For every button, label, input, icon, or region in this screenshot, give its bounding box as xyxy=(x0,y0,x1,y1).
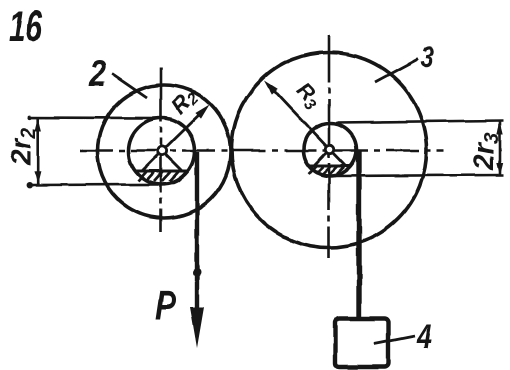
radius arrow R3 xyxy=(265,81,330,150)
wheel 3 vertical centerline xyxy=(328,35,331,258)
wheel 2 outer circle (gear 2, radius R2) xyxy=(98,85,231,218)
svg-text:2: 2 xyxy=(88,53,106,94)
dimension 2r3 (right side) xyxy=(334,121,503,177)
pivot support of wheel 3 (pin, legs, hatched ground) xyxy=(308,145,351,174)
wheel 2 vertical centerline xyxy=(160,67,163,232)
svg-text:4: 4 xyxy=(416,318,432,356)
weight 4 (hanging box) xyxy=(336,319,389,368)
rope from wheel 3 small pulley to weight xyxy=(356,151,361,320)
pivot support of wheel 2 (pin, legs, hatched ground) xyxy=(136,146,188,181)
svg-text:16: 16 xyxy=(9,2,42,51)
svg-text:3: 3 xyxy=(421,41,434,74)
label 3 with leader line xyxy=(375,41,434,82)
horizontal centerline through both wheel centers xyxy=(80,149,444,152)
wheel 3 inner pulley circle (radius r3) xyxy=(304,123,357,176)
label 4 with leader line xyxy=(374,318,432,356)
force P arrow (cord from small pulley of wheel 2) xyxy=(190,152,204,348)
radius arrow R2 xyxy=(163,105,210,151)
svg-text:P: P xyxy=(155,282,176,328)
label 2 with leader line xyxy=(88,53,147,98)
wheel 2 inner pulley circle (radius r2) xyxy=(129,118,195,184)
dimension 2r2 (left side) xyxy=(5,116,161,189)
wheel 3 outer circle (gear 3, radius R3) xyxy=(232,53,427,248)
